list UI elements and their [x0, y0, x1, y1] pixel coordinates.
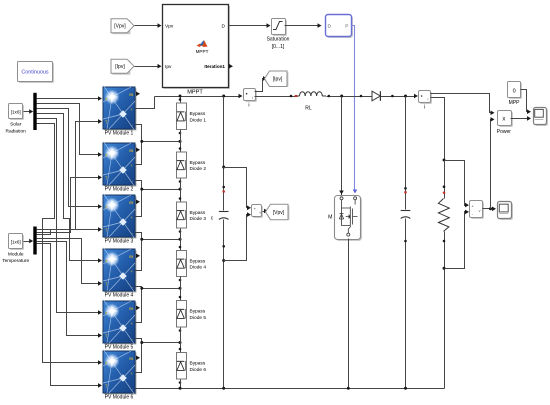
wire node down to resistor R [444, 161, 446, 199]
svg-text:Bypass: Bypass [190, 361, 206, 367]
wire bypass diode chain segment above diode 1 [180, 97, 182, 104]
svg-text:MPPT: MPPT [196, 49, 209, 54]
svg-text:Diode 5: Diode 5 [190, 315, 207, 321]
svg-text:Module: Module [8, 251, 24, 257]
svg-text:Ipv: Ipv [165, 64, 172, 70]
PV Module 5 block [103, 299, 136, 345]
wire node to v2 + [445, 161, 466, 206]
svg-text:0: 0 [513, 88, 516, 94]
svg-text:Temperature: Temperature [2, 258, 29, 264]
svg-text:T: T [105, 281, 108, 286]
wire C1 top to v1 + [224, 168, 248, 208]
voltage measurement block v1 [253, 206, 263, 218]
current measurement block i2 [420, 92, 432, 104]
Goto tag [Ipv] [271, 72, 288, 86]
wire Power to Scope1 [511, 118, 528, 120]
ground return bus wire [138, 388, 445, 390]
svg-text:i: i [248, 103, 249, 109]
svg-text:m: m [129, 200, 133, 205]
svg-text:PV Module 4: PV Module 4 [105, 293, 134, 299]
svg-text:PV Module 5: PV Module 5 [105, 345, 134, 351]
svg-text:Diode 1: Diode 1 [190, 117, 207, 123]
product block Power (X) [499, 112, 513, 127]
svg-text:P: P [345, 24, 348, 30]
demux bus bar 1 (irradiance) [33, 93, 36, 130]
load resistor R [438, 199, 449, 232]
Scope1 (power scope) [535, 109, 548, 126]
wire bypass diode chain segment above diode 4 [180, 229, 182, 251]
wire junction row between PV1 and PV2 [136, 125, 142, 142]
svg-text:[Vpv]: [Vpv] [114, 24, 126, 30]
wire PV6 - to ground bus [136, 388, 142, 390]
wire rail to capacitor C2 [405, 97, 407, 210]
wire junction row between PV4 and PV5 [136, 287, 142, 289]
node: top positive rail [155, 96, 240, 98]
wire resistor R to ground bus [444, 232, 446, 389]
wire capacitor C2 to ground bus [405, 219, 407, 389]
svg-text:Saturation: Saturation [267, 37, 290, 43]
svg-text:v: v [479, 209, 481, 213]
PV Module 6 block [103, 349, 136, 395]
PV Module 1 m output arrow [136, 92, 140, 97]
wire bypass diode chain segment above diode 6 [180, 328, 182, 353]
wire Solar Radiation to demux bar [24, 111, 30, 113]
PV Module 3 m output arrow [136, 200, 140, 205]
wire radiation to PV Module 3 [37, 109, 99, 207]
PV Module 5 m output arrow [136, 306, 140, 311]
PV Module 3 block [103, 193, 136, 239]
wire bypass diode chain segment above diode 3 [180, 179, 182, 203]
wire junction row between PV5 and PV6 [136, 339, 142, 343]
svg-text:PV Module 1: PV Module 1 [105, 131, 134, 137]
bypass diode D2 [177, 152, 187, 178]
wire From[Ipv] to MPPT.Ipv [135, 66, 159, 68]
svg-text:Diode 4: Diode 4 [190, 265, 207, 271]
svg-text:v: v [259, 210, 261, 214]
MATLAB Function block MPPT (U1) [164, 6, 230, 89]
capacitor C1 [219, 211, 229, 213]
wire temperature to PV Module 6 [37, 244, 99, 386]
svg-text:RL: RL [305, 106, 312, 112]
output port Iteration1 arrow [229, 64, 233, 69]
wire inductor to series diode [327, 96, 373, 98]
svg-text:T: T [105, 333, 108, 338]
wire temperature to PV Module 5 [37, 242, 99, 336]
svg-text:[Ipv]: [Ipv] [273, 77, 283, 83]
wire Module Temperature to demux bar [24, 241, 30, 243]
demux bus bar 2 (temperature) [33, 227, 36, 255]
wire capacitor C1 to ground bus [223, 220, 225, 389]
svg-text:[1x6]: [1x6] [11, 240, 21, 245]
wire MPP constant to Scope1 [521, 90, 528, 112]
constant block Module Temperature [1x6] [10, 235, 24, 250]
Saturation block [273, 20, 287, 36]
wire rail to MOSFET drain [341, 97, 343, 196]
wire bypass diode chain to ground bus [180, 380, 182, 389]
PV Module 4 block [103, 247, 136, 293]
wire PV1 + to top rail [136, 97, 155, 109]
svg-text:i: i [428, 97, 429, 102]
current measurement block i1 [245, 90, 257, 102]
PV Module 1 block [103, 85, 136, 131]
svg-text:Vpv: Vpv [165, 24, 174, 30]
bypass diode D1 [177, 103, 187, 130]
svg-text:T: T [105, 383, 108, 388]
From tag [Ipv] [112, 61, 130, 75]
svg-text:PV Module 2: PV Module 2 [105, 187, 134, 193]
wire C1 bottom to v1 - [224, 215, 248, 261]
wire radiation to PV Module 5 [37, 119, 99, 313]
wire temperature to PV Module 1 [37, 122, 99, 230]
svg-text:M: M [328, 215, 332, 221]
wire junction row between PV2 and PV3 [136, 181, 142, 190]
svg-text:[1x6]: [1x6] [11, 110, 21, 115]
blue wire PWM.P to MOSFET gate [352, 26, 355, 190]
wire rail i1 to inductor RL [255, 96, 298, 98]
svg-text:D: D [222, 24, 226, 30]
wire v2 to Scope2 and Power [483, 208, 493, 210]
powergui Continuous block [19, 63, 54, 83]
svg-text:Iteration1: Iteration1 [204, 64, 225, 69]
svg-text:[Ipv]: [Ipv] [115, 64, 125, 70]
PWM Generator block (blue subsystem) [327, 16, 353, 38]
svg-text:m: m [129, 306, 133, 311]
wire i1 signal to Goto [Ipv] [255, 79, 264, 92]
wire radiation to PV Module 2 [37, 104, 99, 155]
svg-text:Bypass: Bypass [190, 258, 206, 264]
wire bypass diode chain segment above diode 2 [180, 130, 182, 153]
svg-text:T: T [105, 119, 108, 124]
bypass diode D6 [177, 353, 187, 380]
svg-text:Diode 6: Diode 6 [190, 367, 207, 373]
Scope2 (load voltage scope) [499, 203, 513, 220]
svg-text:Radiation: Radiation [6, 128, 27, 134]
wire radiation to PV Module 6 [37, 124, 99, 363]
svg-text:MPP: MPP [509, 100, 521, 106]
capacitor C2 [401, 210, 411, 212]
wire temperature to PV Module 2 [37, 178, 99, 233]
bypass diode D5 [177, 301, 187, 328]
wire bypass diode chain segment above diode 5 [180, 277, 182, 301]
svg-text:Diode 3: Diode 3 [190, 216, 207, 222]
PV Module 2 m output arrow [136, 148, 140, 153]
wire junction row between PV3 and PV4 [136, 233, 142, 240]
svg-text:T: T [105, 175, 108, 180]
wire i2 signal to Power product [431, 94, 492, 113]
bypass diode D4 [177, 251, 187, 277]
svg-text:[Vpv]: [Vpv] [273, 210, 285, 216]
svg-text:T: T [105, 227, 108, 232]
PV Module 6 m output arrow [136, 356, 140, 361]
From tag [Vpv] [112, 20, 130, 34]
wire series diode to i2 [381, 96, 415, 98]
series diode D7 [372, 91, 380, 101]
svg-text:MPPT: MPPT [187, 89, 203, 95]
wire From[Vpv] to MPPT.Vpv [135, 25, 159, 27]
wire temperature to PV Module 3 [37, 230, 99, 235]
wire radiation to PV Module 1 [37, 98, 99, 100]
wire rail to capacitor C1 [223, 97, 225, 211]
svg-text:Bypass: Bypass [190, 309, 206, 315]
svg-text:Bypass: Bypass [190, 111, 206, 117]
svg-text:Diode 2: Diode 2 [190, 166, 207, 172]
svg-text:Power: Power [497, 129, 512, 135]
svg-text:m: m [129, 148, 133, 153]
svg-text:Bypass: Bypass [190, 160, 206, 166]
voltage measurement block v2 [471, 202, 484, 219]
svg-text:m: m [129, 356, 133, 361]
svg-text:PV Module 6: PV Module 6 [105, 395, 134, 401]
svg-text:x: x [502, 116, 505, 122]
svg-text:Bypass: Bypass [190, 210, 206, 216]
svg-text:Solar: Solar [10, 122, 22, 128]
constant block 0 (MPP reference) [509, 83, 522, 99]
inductor RL [297, 92, 326, 96]
svg-text:PV Module 3: PV Module 3 [105, 239, 134, 245]
svg-text:D: D [328, 24, 332, 30]
svg-text:[0...1]: [0...1] [272, 44, 285, 50]
svg-text:m: m [129, 92, 133, 97]
wire MPPT.D to Saturation [229, 25, 268, 27]
svg-text:m: m [129, 254, 133, 259]
wire Saturation to PWM.D [285, 25, 319, 27]
MOSFET M (Q1) [336, 197, 362, 241]
MATLAB logo inside MPPT [197, 40, 208, 47]
wire temperature to PV Module 4 [37, 239, 99, 284]
PV Module 4 m output arrow [136, 254, 140, 259]
bypass diode D3 [177, 202, 187, 228]
constant block Solar Radiation [1x6] [10, 105, 24, 120]
svg-text:Continuous: Continuous [21, 70, 49, 76]
wire radiation to PV Module 4 [37, 114, 99, 261]
wire resistor bottom to v2 - [445, 212, 466, 269]
svg-text:i: i [424, 105, 425, 111]
Goto tag [Vpv] [272, 206, 289, 220]
PV Module 2 block [103, 141, 136, 187]
wire MOSFET source to ground bus [348, 239, 350, 389]
wire v1 to Goto [Vpv] [263, 211, 265, 213]
wire i2 electrical out to load node [431, 98, 445, 161]
svg-text:i: i [252, 95, 253, 100]
